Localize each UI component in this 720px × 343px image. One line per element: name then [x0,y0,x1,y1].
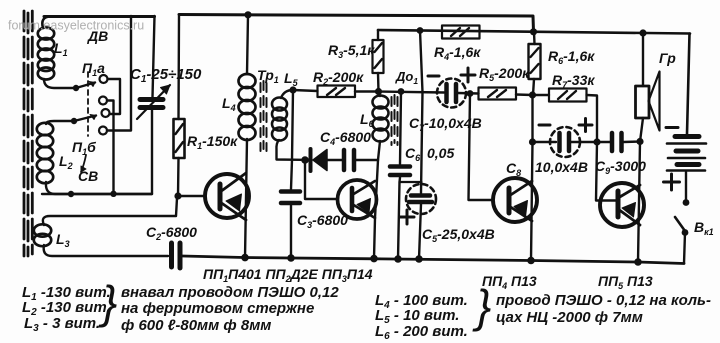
svg-text:R5-200к: R5-200к [479,65,530,83]
svg-text:С2-6800: С2-6800 [146,224,197,242]
svg-text:С9-3000: С9-3000 [595,158,646,176]
svg-text:forum.easyelectronics.ru: forum.easyelectronics.ru [8,19,144,33]
svg-text:R2-200к: R2-200к [313,69,364,87]
svg-text:цах НЦ -2000 ф 7мм: цах НЦ -2000 ф 7мм [496,309,643,326]
svg-text:10,0х4В: 10,0х4В [535,159,588,175]
svg-text:R6-1,6к: R6-1,6к [548,48,595,66]
svg-text:ф 600 ℓ-80мм ф 8мм: ф 600 ℓ-80мм ф 8мм [121,317,271,334]
svg-text:L6 - 200 вит.: L6 - 200 вит. [375,323,468,342]
svg-text:R3-5,1к: R3-5,1к [328,42,375,60]
svg-text:внавал проводом ПЭШО 0,12: внавал проводом ПЭШО 0,12 [121,284,339,301]
svg-text:СВ: СВ [78,168,98,184]
svg-text:на ферритовом стержне: на ферритовом стержне [121,300,314,317]
svg-text:Гр: Гр [659,50,676,66]
svg-text:R4-1,6к: R4-1,6к [434,44,481,62]
svg-text:С1-25÷150: С1-25÷150 [130,66,202,85]
svg-text:R7-33к: R7-33к [552,72,595,90]
svg-text:R1-150к: R1-150к [187,133,238,151]
svg-text:ПП5 П13: ПП5 П13 [598,273,653,291]
svg-text:0,05: 0,05 [427,145,454,161]
svg-text:С3-6800: С3-6800 [297,212,348,230]
svg-text:провод ПЭШО - 0,12 на коль-: провод ПЭШО - 0,12 на коль- [496,292,711,309]
svg-text:С4-6800: С4-6800 [320,129,371,147]
